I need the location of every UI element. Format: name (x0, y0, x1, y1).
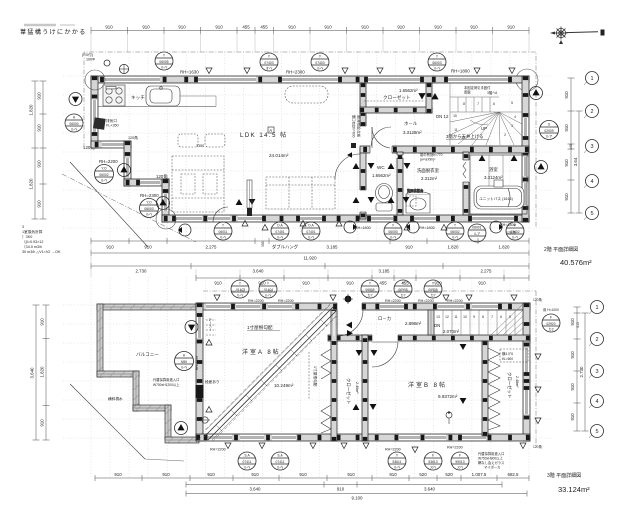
svg-text:排気口: 排気口 (106, 118, 117, 123)
svg-text:06003: 06003 (432, 61, 441, 65)
svg-text:910: 910 (106, 245, 114, 250)
svg-text:ルベ: ルベ (394, 466, 401, 470)
svg-text:RH=2200: RH=2200 (385, 299, 401, 303)
svg-text:洗面化粧台: 洗面化粧台 (407, 188, 424, 193)
svg-text:06002: 06002 (450, 230, 459, 234)
right dim 3F (576, 307, 578, 431)
circle S02009 right (540, 121, 559, 140)
3F stair west stub (428, 310, 434, 335)
svg-text:910: 910 (178, 25, 186, 30)
2F outer wall left (91, 76, 98, 148)
svg-text:7: 7 (477, 102, 479, 106)
diagonal hatch ticks (216, 320, 327, 431)
2F closet bottom wall (360, 107, 432, 113)
svg-text:スベ: スベ (430, 465, 437, 470)
sash circle Y07403 a (260, 53, 278, 71)
module grid 2F (90, 52, 92, 241)
svg-text:910: 910 (576, 322, 580, 328)
svg-text:455: 455 (242, 25, 250, 30)
svg-text:2: 2 (590, 109, 593, 115)
extension lines top (91, 31, 529, 52)
sash circle Y06003 (428, 53, 446, 71)
2F step wall h1 (91, 141, 131, 148)
svg-text:ルベ: ルベ (277, 236, 284, 240)
svg-text:FL+350: FL+350 (106, 124, 119, 128)
corridor door arc to LDK (335, 154, 360, 179)
2F hall wall (360, 83, 366, 219)
svg-text:9.9372m²: 9.9372m² (438, 394, 458, 399)
plus mark (345, 296, 352, 303)
svg-text:8: 8 (482, 315, 484, 319)
svg-text:洋室B 8帖: 洋室B 8帖 (408, 381, 447, 389)
svg-text:3.64: 3.64 (573, 157, 578, 166)
svg-text:40.576m²: 40.576m² (560, 258, 592, 267)
svg-text:クローゼット: クローゼット (383, 94, 411, 101)
svg-text:8: 8 (463, 102, 465, 106)
svg-text:910: 910 (302, 281, 310, 286)
triangle circle balcony down (175, 422, 188, 435)
svg-text:120角: 120角 (128, 135, 138, 140)
nabla vent marks on top wall (206, 68, 515, 74)
svg-text:910: 910 (564, 159, 569, 167)
extension lines mid (91, 244, 529, 277)
svg-text:910: 910 (346, 281, 354, 286)
compass (550, 27, 598, 45)
kitchen stove (103, 85, 125, 106)
svg-text:2.898m²: 2.898m² (405, 321, 422, 326)
door arc roomB (372, 342, 398, 367)
svg-text:910: 910 (142, 25, 150, 30)
hall door arc (372, 127, 390, 148)
svg-text:DN 12: DN 12 (436, 114, 449, 119)
eave dashed 3F top (203, 290, 536, 292)
svg-text:2.312m²: 2.312m² (421, 176, 438, 181)
svg-text:(FD付): (FD付) (82, 52, 93, 57)
eave dash-dot line 2F (84, 52, 536, 228)
svg-text:910: 910 (162, 472, 170, 477)
svg-text:4: 4 (590, 179, 593, 185)
svg-text:06905: 06905 (398, 288, 407, 292)
svg-text:910: 910 (347, 472, 355, 477)
svg-text:〔β=0.93×12: 〔β=0.93×12 (22, 239, 43, 244)
svg-text:RH=1800: RH=1800 (355, 226, 371, 230)
bottom arrows 2F (178, 221, 503, 236)
svg-text:11: 11 (454, 128, 458, 132)
svg-text:D.A: D.A (277, 224, 283, 228)
washstand (406, 188, 430, 213)
svg-text:1.820: 1.820 (29, 104, 34, 116)
svg-text:24.014m²: 24.014m² (269, 153, 289, 158)
3F balcony parapet left (97, 304, 103, 377)
svg-text:3: 3 (511, 124, 513, 128)
vent calc note block (22, 225, 61, 254)
wc door arc (371, 127, 391, 146)
svg-text:RH=2200: RH=2200 (210, 448, 226, 452)
top dimension line 2F (91, 30, 529, 32)
svg-text:T: T (454, 224, 456, 228)
svg-text:100Φ: 100Φ (86, 58, 95, 62)
svg-text:06905: 06905 (365, 288, 374, 292)
setback diagonal dash-dot (62, 174, 196, 242)
svg-text:3.185: 3.185 (379, 269, 391, 274)
svg-text:ホ－ル: ホ－ル (404, 121, 418, 126)
svg-text:N50: N50 (181, 360, 187, 364)
svg-text:マイボーカ: マイボーカ (484, 465, 500, 470)
circles row above 3F (231, 280, 442, 298)
3F outer wall top (196, 303, 530, 310)
svg-text:910: 910 (405, 245, 413, 250)
dining table dashed (172, 134, 225, 212)
closet arrows (418, 93, 438, 100)
svg-text:DN: DN (434, 323, 440, 328)
svg-text:A: A (269, 128, 272, 133)
ceiling light dashed (285, 86, 328, 103)
small open triangles bottom 2F (242, 221, 447, 231)
3F outer wall left (196, 303, 203, 441)
corner circle top-left (85, 70, 105, 90)
2F outer wall top (91, 76, 529, 83)
svg-text:RH=1800: RH=1800 (500, 223, 516, 227)
svg-text:12: 12 (445, 315, 449, 319)
svg-text:520: 520 (419, 472, 427, 477)
svg-text:455: 455 (260, 25, 268, 30)
corner construction circle (516, 69, 538, 91)
ladder dashes at roomA west window (206, 320, 216, 335)
stair numbers 2F (453, 101, 516, 140)
svg-text:RH=1630: RH=1630 (180, 70, 199, 75)
3F balcony step h1 (97, 371, 139, 377)
svg-text:3階 平面詳細図: 3階 平面詳細図 (547, 472, 581, 479)
3F outer wall bottom (196, 434, 530, 441)
svg-text:120角: 120角 (533, 444, 542, 449)
svg-text:閉口有効h=600: 閉口有効h=600 (352, 115, 357, 138)
svg-text:2.275: 2.275 (481, 269, 493, 274)
triangle circle left (69, 93, 82, 106)
svg-text:2.275: 2.275 (206, 245, 218, 250)
svg-text:RH=2200: RH=2200 (418, 299, 434, 303)
svg-text:3階から天井上げる: 3階から天井上げる (446, 133, 484, 140)
svg-text:910: 910 (470, 25, 478, 30)
circle YO06003 (140, 199, 159, 218)
svg-text:〕3K0: 〕3K0 (22, 234, 32, 239)
svg-text:横3.0°6: 横3.0°6 (502, 351, 513, 356)
svg-text:ルベ: ルベ (244, 466, 251, 470)
svg-text:ルア: ルア (546, 134, 553, 139)
svg-text:用 H=1000: 用 H=1000 (543, 308, 559, 312)
svg-text:1.007.5: 1.007.5 (472, 472, 487, 477)
svg-text:1.6562m²: 1.6562m² (399, 88, 418, 93)
stair fan (450, 112, 522, 145)
triangle circle balcony up (185, 321, 198, 334)
unit bath inner (470, 155, 527, 214)
right dim 2F (570, 78, 572, 213)
svg-text:洗面脱衣室: 洗面脱衣室 (417, 167, 440, 174)
svg-text:浴室: 浴室 (489, 166, 498, 173)
svg-text:910: 910 (37, 200, 42, 208)
svg-text:1寸屋根勾配: 1寸屋根勾配 (313, 366, 318, 387)
bottom annotation row 2F (214, 222, 524, 242)
svg-text:ルア: ルア (474, 231, 481, 236)
svg-text:910: 910 (564, 193, 569, 201)
svg-text:910: 910 (478, 281, 486, 286)
2F outer wall bottom (162, 215, 529, 222)
svg-text:910: 910 (564, 91, 569, 99)
svg-text:RH=2200: RH=2200 (248, 299, 264, 303)
svg-text:カ7: カ7 (430, 293, 435, 298)
svg-text:カ2: カ2 (548, 327, 553, 332)
svg-text:3: 3 (22, 225, 24, 229)
svg-text:910: 910 (299, 472, 307, 477)
svg-text:実(排気設)仕様: 実(排気設)仕様 (357, 115, 362, 138)
svg-text:RH=2200: RH=2200 (447, 299, 463, 303)
lot diagonal 3F (70, 384, 145, 459)
grid circles 3F right (591, 301, 604, 438)
svg-text:30 m3/h △V1<V2 →OK: 30 m3/h △V1<V2 →OK (22, 250, 61, 254)
svg-text:¥L=600: ¥L=600 (502, 357, 513, 361)
svg-text:3.640: 3.640 (30, 367, 35, 379)
bath tub (474, 186, 524, 209)
svg-text:カ7: カ7 (367, 293, 372, 298)
svg-text:53613: 53613 (428, 460, 437, 464)
svg-text:06003: 06003 (144, 207, 153, 211)
svg-text:F: F (459, 454, 461, 458)
svg-text:910: 910 (114, 472, 122, 477)
svg-text:07411: 07411 (276, 460, 285, 464)
svg-text:2: 2 (595, 337, 598, 343)
svg-text:06001: 06001 (472, 226, 481, 230)
3F balcony step h3 (165, 437, 199, 443)
svg-text:バルコニー: バルコニー (136, 352, 159, 357)
svg-text:910: 910 (397, 25, 405, 30)
2F step wall h2 (124, 179, 169, 186)
right side F circle (542, 314, 560, 332)
svg-text:閉の有効h=770: 閉の有効h=770 (420, 152, 443, 157)
svg-text:ルベ: ルベ (277, 466, 284, 470)
3F bottom dim row1 (95, 477, 529, 479)
3F balcony step v1 (133, 371, 139, 411)
svg-text:RH=2200: RH=2200 (195, 356, 199, 370)
bottom row circles 3F (238, 452, 469, 470)
faucet mark (446, 412, 452, 418)
svg-text:クローゼット: クローゼット (345, 378, 352, 404)
arrows interior (wc/wash) (236, 112, 518, 205)
svg-text:ダブルハング: ダブルハング (272, 244, 299, 251)
entry arc (213, 207, 228, 222)
svg-text:3: 3 (595, 369, 598, 375)
circle YO06002 (95, 165, 114, 184)
svg-text:682.5: 682.5 (508, 472, 520, 477)
svg-text:120角: 120角 (533, 297, 542, 302)
svg-text:910: 910 (389, 472, 397, 477)
svg-text:1.820: 1.820 (29, 178, 34, 190)
svg-text:1.820: 1.820 (448, 245, 460, 250)
svg-text:ルベ: ルベ (237, 294, 244, 298)
svg-text:1.820: 1.820 (40, 366, 45, 378)
svg-text:スベ: スベ (457, 465, 464, 470)
svg-text:59013: 59013 (455, 460, 464, 464)
svg-text:520: 520 (445, 472, 453, 477)
svg-text:07403: 07403 (315, 61, 324, 65)
left dims 2F (42, 81, 44, 219)
svg-text:ルベ: ルベ (265, 294, 272, 298)
svg-text:D.A: D.A (308, 224, 314, 228)
3F closet B wall (482, 341, 488, 436)
misc marks LDK bottom (243, 195, 304, 213)
svg-text:2.48m²: 2.48m² (515, 376, 519, 388)
svg-text:9.100: 9.100 (352, 496, 364, 501)
sash circle Y06005 (155, 52, 173, 70)
3F outer wall right (523, 303, 530, 441)
svg-text:910: 910 (564, 124, 569, 132)
svg-text:910: 910 (361, 25, 369, 30)
svg-text:ルベ: ルベ (452, 236, 459, 240)
3F closet A left wall (331, 310, 337, 441)
3F bottom dim row2 (186, 484, 502, 486)
svg-text:910: 910 (288, 25, 296, 30)
svg-text:洋室A 8帖: 洋室A 8帖 (242, 348, 281, 356)
svg-text:1室換気計算: 1室換気計算 (22, 229, 43, 234)
stair straight treads (450, 83, 522, 145)
stair treads 3F (434, 310, 515, 335)
svg-text:W750xH900以上: W750xH900以上 (478, 456, 503, 461)
svg-text:ルベ: ルベ (317, 67, 324, 71)
interior open triangles left wall (206, 340, 212, 413)
svg-text:06002: 06002 (99, 173, 108, 177)
svg-text:4: 4 (514, 115, 516, 119)
2F closet right wall (426, 83, 432, 113)
svg-text:5: 5 (511, 101, 513, 105)
svg-text:5: 5 (590, 211, 593, 217)
circle N50 (175, 352, 194, 371)
triangle right arrow corridor door (347, 152, 352, 157)
svg-text:07401: 07401 (306, 230, 315, 234)
3F top dim row1 (91, 265, 529, 267)
svg-text:RH=2200: RH=2200 (385, 448, 401, 452)
svg-text:9: 9 (473, 315, 475, 319)
svg-text:1: 1 (590, 76, 593, 82)
svg-text:3.3128m²: 3.3128m² (403, 130, 422, 135)
roof slope vertical note (308, 352, 310, 400)
3F closet A right wall (362, 335, 368, 441)
svg-text:1.820: 1.820 (499, 245, 511, 250)
svg-text:RH=1800: RH=1800 (451, 69, 470, 74)
svg-text:F: F (550, 316, 552, 320)
svg-text:T: T (222, 224, 224, 228)
svg-text:ユニットバス (1616): ユニットバス (1616) (479, 196, 513, 201)
svg-text:ルベ: ルベ (434, 67, 441, 71)
svg-text:3.640: 3.640 (250, 487, 262, 492)
svg-text:代替採算用進入口: 代替採算用進入口 (478, 451, 504, 456)
svg-text:10: 10 (453, 114, 457, 118)
3F top dim row2 (196, 277, 529, 279)
closet A zigzag (321, 349, 331, 379)
svg-text:ルベ: ルベ (101, 179, 108, 183)
2F step wall v2 (162, 179, 169, 222)
svg-text:910: 910 (570, 413, 575, 421)
3F balcony parapet top (97, 304, 199, 310)
svg-text:2.730: 2.730 (136, 269, 148, 274)
svg-text:910: 910 (337, 487, 345, 492)
stair numbers (436, 315, 511, 319)
svg-text:着脱: 着脱 (464, 90, 471, 95)
compass flag (601, 30, 605, 36)
open triangles right edge (535, 354, 541, 424)
bath partition lines (488, 155, 490, 186)
2F middle wall (360, 146, 529, 153)
2F outer wall right (522, 76, 529, 222)
bath door (463, 162, 466, 178)
svg-text:3.640: 3.640 (424, 487, 436, 492)
3F bottom dim row3 (186, 493, 527, 495)
svg-text:07411: 07411 (243, 460, 252, 464)
svg-text:910: 910 (251, 472, 259, 477)
svg-text:910: 910 (37, 160, 42, 168)
svg-text:910: 910 (144, 245, 152, 250)
svg-text:1: 1 (595, 305, 598, 311)
svg-text:120角: 120角 (156, 173, 168, 180)
3F balcony step v2 (165, 405, 171, 440)
washer dashed (406, 196, 416, 206)
svg-text:S.A: S.A (277, 454, 283, 458)
2F bath left wall (463, 152, 469, 215)
3F balcony step h2 (133, 405, 171, 411)
svg-text:07403: 07403 (264, 61, 273, 65)
svg-text:06003: 06003 (388, 230, 397, 234)
svg-text:RH=2200: RH=2200 (99, 159, 118, 164)
left dims 3F (45, 305, 47, 440)
svg-text:910: 910 (434, 25, 442, 30)
svg-text:02009: 02009 (544, 129, 553, 133)
svg-text:ルベ: ルベ (512, 236, 519, 240)
corridor door pointer 3F (347, 330, 353, 336)
ladder note dashed box (500, 349, 528, 362)
svg-text:-01404: -01404 (263, 288, 273, 292)
svg-text:910: 910 (570, 318, 575, 326)
svg-text:RH=2200: RH=2200 (447, 446, 463, 450)
svg-text:910: 910 (37, 92, 42, 100)
svg-text:6: 6 (500, 315, 502, 319)
triangles at roomA bottom arrows (354, 354, 361, 360)
svg-text:06011: 06011 (219, 230, 228, 234)
interior arrows 3F (346, 312, 466, 410)
svg-text:355: 355 (261, 241, 265, 247)
svg-text:33.124m²: 33.124m² (558, 485, 590, 494)
svg-text:1350: 1350 (196, 144, 204, 148)
stair arrow (470, 120, 488, 125)
svg-text:10.249m²: 10.249m² (274, 383, 294, 388)
svg-text:02920: 02920 (546, 322, 555, 326)
struck-out note (24, 24, 56, 27)
svg-text:本固定荷引手固付: 本固定荷引手固付 (464, 85, 491, 90)
svg-text:06905: 06905 (428, 288, 437, 292)
svg-text:910: 910 (324, 25, 332, 30)
svg-text:LDK 14.5 帖: LDK 14.5 帖 (240, 131, 288, 139)
svg-text:7: 7 (491, 315, 493, 319)
svg-text:1.6562m²: 1.6562m² (372, 173, 391, 178)
svg-text:ルベ: ルベ (308, 236, 315, 240)
svg-text:06000: 06000 (69, 122, 78, 126)
svg-text:53611: 53611 (393, 460, 402, 464)
svg-text:オベ: オベ (266, 66, 273, 71)
svg-text:910: 910 (570, 351, 575, 359)
sash circle Y07403 b (311, 53, 329, 71)
open triangles bottom 3F (225, 443, 526, 453)
svg-text:〔34.0 m3/h: 〔34.0 m3/h (22, 244, 42, 249)
svg-text:ルベ: ルベ (161, 66, 168, 70)
bath counter sq (494, 180, 503, 187)
svg-text:4: 4 (595, 399, 598, 405)
svg-text:RH=2200: RH=2200 (278, 299, 294, 303)
